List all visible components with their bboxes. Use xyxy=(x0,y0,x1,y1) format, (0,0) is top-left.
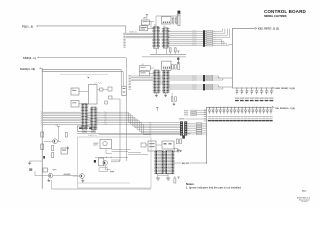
LED row2 D22 xyxy=(252,107,253,108)
wire branch y44.6 to trunk xyxy=(229,44,233,46)
resistor R12 xyxy=(178,64,180,70)
wire J2 rail to U1 top xyxy=(155,16,157,26)
ground LED row1 D2 xyxy=(240,98,244,99)
svg-text:KB_INT: KB_INT xyxy=(182,163,190,165)
wire bottom rail xyxy=(52,188,152,190)
LED row2 D12 xyxy=(216,107,217,108)
resistor network stack RN1-RN8 xyxy=(192,31,197,32)
svg-text:SND(4..1): SND(4..1) xyxy=(23,57,36,60)
capacitor C10 xyxy=(172,65,174,69)
wire Q1 base xyxy=(35,175,48,177)
label R52 xyxy=(110,171,113,172)
box K2 xyxy=(71,101,79,108)
resistor R33 xyxy=(52,153,54,158)
wire merge staircase S1 lower to branch xyxy=(214,39,222,44)
box K8 xyxy=(162,141,174,149)
svg-text:2/1/2004: 2/1/2004 xyxy=(301,201,308,203)
label LED row2 D17 xyxy=(233,115,236,118)
diode D31 dark xyxy=(94,160,96,163)
power +5V above rail xyxy=(156,107,158,109)
wire KB_INT line xyxy=(174,162,182,164)
ground below U4 xyxy=(165,93,167,95)
capacitor C5 xyxy=(170,48,172,52)
wire bundle U4 to RN stacks xyxy=(168,75,192,77)
diode D40 dark xyxy=(182,135,185,138)
resistor row R63 xyxy=(179,118,185,119)
svg-text:C1: C1 xyxy=(72,88,74,90)
resistor network RP1 xyxy=(178,11,181,14)
LED row2 D23 xyxy=(256,107,257,108)
svg-text:U1: U1 xyxy=(154,25,156,27)
box K6 xyxy=(61,148,68,154)
wire K1 to K3 xyxy=(79,91,89,93)
LED row2 D24 xyxy=(260,107,261,108)
ground below Q2 xyxy=(82,178,84,180)
box K10 xyxy=(99,168,108,172)
box K9 xyxy=(43,168,48,172)
IC U8 xyxy=(91,107,96,130)
ground near R45 xyxy=(179,150,181,152)
capacitor C41 xyxy=(180,139,182,144)
LED row2 D18 xyxy=(238,107,239,108)
net label KB2_ROW(7..2) xyxy=(273,87,275,89)
label LED row2 D22 xyxy=(251,115,254,118)
svg-text:MODEL CLKT0608: MODEL CLKT0608 xyxy=(264,14,287,18)
ground bar under U7 xyxy=(82,131,87,132)
resistor R31 xyxy=(41,144,44,150)
IC U4 xyxy=(163,70,168,93)
wire Q4 connections xyxy=(44,140,53,142)
LED row2 D16 xyxy=(231,107,232,108)
svg-text:KB2_RBT(7..2) (2): KB2_RBT(7..2) (2) xyxy=(258,29,279,31)
resistor stack RN9-RN11 xyxy=(192,75,197,76)
box K7 xyxy=(148,141,156,151)
box K4 xyxy=(122,86,127,95)
diode D20 xyxy=(177,58,179,60)
tick marks above K3 xyxy=(94,82,95,83)
svg-text:1. Ignore indicates that the p: 1. Ignore indicates that the part is not… xyxy=(186,186,241,190)
ground below D20 xyxy=(177,61,180,63)
wire PQ bus horizontal xyxy=(38,25,126,27)
capacitor C9 box xyxy=(139,71,149,76)
LED row2 D19 xyxy=(242,107,243,108)
capacitor C30 xyxy=(65,133,67,138)
wire hatch bundle left xyxy=(43,111,81,113)
connector block P2 dark xyxy=(184,121,187,135)
capacitor C2 xyxy=(142,20,150,25)
transistor Q4 xyxy=(53,139,58,144)
label LED row2 D14 xyxy=(222,115,225,118)
ground LED row1 D6 xyxy=(259,98,263,99)
power +5V bottomleft xyxy=(57,126,59,128)
wire bundle U3-U4 interconnect xyxy=(159,75,163,77)
connector J3 xyxy=(162,61,171,70)
wire X1 to U1 xyxy=(148,27,154,29)
wire SLED bus pair xyxy=(41,67,42,69)
IC U2 xyxy=(163,28,168,48)
wire merge staircase S1 upper to trunk xyxy=(214,29,223,32)
ground LED row1 D7 xyxy=(264,98,268,99)
ground below U6 xyxy=(167,174,169,178)
wire LED row2 feed rail xyxy=(207,106,271,108)
wire trunk vertical right xyxy=(231,28,233,88)
label LED row2 D16 xyxy=(229,115,232,118)
wire SND vertical xyxy=(125,58,127,161)
resistor R22 xyxy=(109,96,112,99)
box K1 xyxy=(71,88,79,95)
transistor Q5 box xyxy=(99,158,104,166)
ground bar under U8 xyxy=(91,131,96,132)
svg-text:Notes:: Notes: xyxy=(186,182,194,186)
transistor Q5 xyxy=(103,161,108,166)
svg-text:PQ(1..0): PQ(1..0) xyxy=(22,25,33,28)
resistor R32 xyxy=(52,146,54,151)
dark bar stack S1 xyxy=(203,30,205,47)
wire trunk to KB2_RBT label xyxy=(232,27,254,29)
ground LED row1 D5 xyxy=(254,98,258,99)
wire left vertical bus xyxy=(41,68,43,189)
svg-text:KB2_ROW(7..2) (2): KB2_ROW(7..2) (2) xyxy=(276,88,296,90)
label Q1 xyxy=(52,169,56,170)
wire bus bundle left of U1 xyxy=(126,32,153,34)
ground LED row1 D3 xyxy=(245,98,249,99)
capacitor C12 xyxy=(171,97,173,101)
connector block P1 dark xyxy=(180,121,183,135)
IC U6 xyxy=(166,151,174,174)
svg-text:SLED(4..10): SLED(4..10) xyxy=(20,68,35,71)
resistor R40 xyxy=(141,143,146,147)
power +5V mid xyxy=(177,50,179,52)
svg-text:CONTROL BOARD: CONTROL BOARD xyxy=(264,9,306,14)
wire SLED pair vertical drops xyxy=(120,70,122,87)
wire bundle U1-U2 interconnect xyxy=(159,32,164,34)
wire row2 left column marks xyxy=(204,109,206,112)
diode D30 xyxy=(43,156,45,159)
capacitor C50 xyxy=(174,178,176,183)
wire bundle hatch ticks mid xyxy=(105,112,107,113)
LED row2 D15 xyxy=(227,107,228,108)
gate U10A box xyxy=(100,139,112,148)
capacitor C4 xyxy=(175,18,177,23)
LED row2 D27 xyxy=(270,107,271,108)
wire U1 bottom to rail xyxy=(155,49,157,55)
box K3 big xyxy=(89,85,98,105)
LED row1 D7 xyxy=(266,88,267,89)
LED row2 D20 xyxy=(245,107,246,108)
label LED row2 D15 xyxy=(226,115,229,118)
box K5 with parts xyxy=(78,126,95,132)
label LED row2 D26 xyxy=(266,115,269,118)
ground LED row1 D8 xyxy=(269,98,273,99)
wire stub labels left of U1 xyxy=(123,32,126,34)
LED row1 D3 xyxy=(246,88,247,89)
LED row1 D2 xyxy=(241,88,242,89)
connector J2 xyxy=(162,17,172,25)
capacitor C3 xyxy=(172,18,174,23)
label LED row2 D18 xyxy=(237,115,240,118)
ground far left xyxy=(29,161,31,163)
ground below U3 xyxy=(155,93,157,95)
ground below U5 xyxy=(157,174,159,178)
wire Q2 base xyxy=(73,175,80,177)
wire bundle U2 to RN stack xyxy=(168,30,192,32)
ground mid right xyxy=(173,101,175,104)
power +5V near U6 xyxy=(177,176,179,178)
resistor R45 xyxy=(175,148,178,151)
LED row2 D10 xyxy=(209,107,210,108)
wire long rail above enclosure xyxy=(77,133,191,135)
wire SND horizontal xyxy=(39,57,126,59)
wire J2 top rail xyxy=(156,15,179,17)
IC U3 xyxy=(154,70,159,93)
label LED row2 D27 xyxy=(269,115,272,118)
wire trunk2 vertical xyxy=(205,107,207,163)
label LED row2 D20 xyxy=(244,115,247,118)
wire pair right of Q5 xyxy=(111,159,120,161)
wire gate outputs xyxy=(112,149,131,151)
svg-text:4.5V(R): 4.5V(R) xyxy=(64,173,71,176)
ground below Q1 xyxy=(48,178,50,180)
label LED row2 D13 xyxy=(219,115,222,118)
LED row2 D14 xyxy=(223,107,224,108)
oscillator X1 xyxy=(140,26,148,31)
LED row2 D21 xyxy=(249,107,250,108)
wire bundle right of U8 staircase xyxy=(96,112,180,122)
LED row1 D8 xyxy=(271,88,272,89)
wire mid horizontal rail xyxy=(150,53,186,55)
LED row2 D17 xyxy=(234,107,235,108)
ground left small xyxy=(67,146,69,148)
wire stubs left of U3 xyxy=(128,74,131,76)
resistor stack RN12-RN14 xyxy=(192,84,197,85)
resistor R50 xyxy=(29,168,32,171)
wire bundle left into U3 xyxy=(131,75,153,77)
IC U5 xyxy=(156,151,164,174)
enclosure outline xyxy=(78,137,152,188)
resistor R23 xyxy=(105,101,108,104)
wire long vertical mid xyxy=(119,99,121,161)
wire cluster links xyxy=(128,152,141,154)
LED row2 D25 xyxy=(263,107,264,108)
wire Q5 down xyxy=(105,165,110,170)
label LED row2 D12 xyxy=(215,115,218,118)
power +5V above C2 xyxy=(146,14,148,16)
label LED row2 D19 xyxy=(240,115,243,118)
ground LED row1 D4 xyxy=(249,98,253,99)
tick mark near K3 xyxy=(88,76,90,78)
resistor R20 xyxy=(100,88,104,91)
capacitor C8 box xyxy=(139,66,150,71)
net label KB_ROW(10..1) xyxy=(272,106,274,108)
wire LED row1 feed rail xyxy=(232,87,271,89)
IC U7 xyxy=(82,104,87,131)
LED row1 D1 xyxy=(236,88,237,89)
transistor Q2 xyxy=(80,174,85,179)
wire enclosure inner bottom xyxy=(78,182,131,184)
label LED row2 D23 xyxy=(255,115,258,118)
net label KB2_RBT(7..2) xyxy=(255,27,257,29)
LED row1 D5 xyxy=(256,88,257,89)
LED row2 D26 xyxy=(267,107,268,108)
wire C8/C9 to U3 xyxy=(150,67,154,69)
label LED row2 D10 xyxy=(208,115,211,118)
label U10 xyxy=(93,143,98,144)
wire U5 U6 bottom rail xyxy=(158,174,168,176)
capacitor C11 xyxy=(175,65,177,69)
wire Q1 collector right xyxy=(53,175,78,177)
LED row1 D4 xyxy=(251,88,252,89)
wire SLED third faint line xyxy=(60,73,108,75)
LED row1 D6 xyxy=(261,88,262,89)
label LED row2 D11 xyxy=(211,115,214,118)
wire bundle hatch ticks lower xyxy=(149,122,151,123)
LED row2 D13 xyxy=(220,107,221,108)
svg-text:U2: U2 xyxy=(163,26,165,28)
label LED row2 D21 xyxy=(248,115,251,118)
wire bundle U7-U8 interconnect xyxy=(87,111,91,113)
svg-text:+5V: +5V xyxy=(55,125,58,127)
svg-text:+5V: +5V xyxy=(141,64,144,66)
label U11 xyxy=(110,171,114,172)
label LED row2 D24 xyxy=(258,115,261,118)
capacitor C6 xyxy=(175,48,177,52)
resistor R21 xyxy=(108,87,112,91)
transistor Q1 xyxy=(48,173,53,178)
svg-text:KB_ROW(10..1) (2): KB_ROW(10..1) (2) xyxy=(276,108,296,110)
resistor rows R60-R62 xyxy=(184,110,188,111)
ground cluster xyxy=(177,149,179,151)
ground LED row1 D1 xyxy=(235,98,239,99)
LED row2 D11 xyxy=(213,107,214,108)
label LED row2 D25 xyxy=(262,115,265,118)
wire PQ vertical drop xyxy=(125,26,127,33)
resistor stack RN15-RN21 xyxy=(196,123,201,124)
resistor R30 xyxy=(41,132,44,137)
capacitor C40 xyxy=(176,139,178,144)
resistor R14 xyxy=(175,97,177,101)
IC U1 xyxy=(154,26,159,48)
